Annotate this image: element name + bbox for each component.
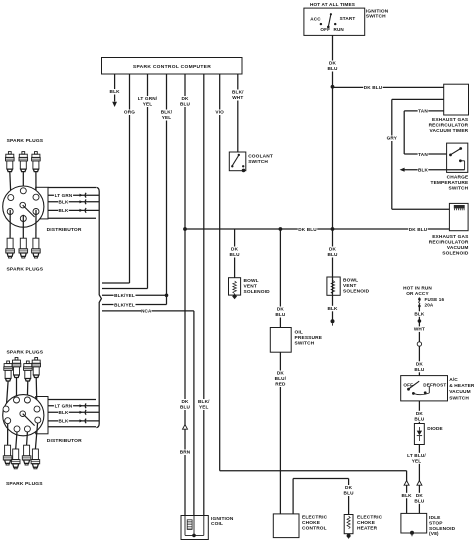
svg-text:SPARK PLUGS: SPARK PLUGS bbox=[7, 138, 44, 144]
svg-text:SWITCH: SWITCH bbox=[449, 395, 469, 401]
svg-text:BLU/: BLU/ bbox=[275, 376, 287, 381]
svg-text:EXHAUST GAS: EXHAUST GAS bbox=[432, 234, 469, 240]
svg-text:BLU: BLU bbox=[180, 102, 191, 107]
svg-text:SOLENOID: SOLENOID bbox=[442, 251, 469, 257]
svg-text:DK BLU: DK BLU bbox=[364, 85, 383, 90]
svg-text:BLK: BLK bbox=[59, 410, 69, 415]
svg-text:BLU: BLU bbox=[414, 416, 425, 421]
svg-text:NCA: NCA bbox=[141, 309, 152, 314]
svg-text:BLK: BLK bbox=[110, 89, 121, 94]
svg-text:DK: DK bbox=[329, 247, 337, 252]
svg-text:DK: DK bbox=[277, 371, 285, 376]
svg-text:RED: RED bbox=[275, 382, 286, 387]
svg-text:BLK: BLK bbox=[418, 168, 429, 173]
svg-text:BLU: BLU bbox=[327, 252, 338, 257]
svg-text:VIO: VIO bbox=[215, 110, 224, 115]
svg-text:BLK/: BLK/ bbox=[161, 110, 173, 115]
svg-text:HOT IN RUN: HOT IN RUN bbox=[403, 286, 432, 291]
svg-text:OIL: OIL bbox=[295, 330, 303, 336]
svg-text:(V8): (V8) bbox=[429, 531, 439, 537]
svg-text:YEL: YEL bbox=[162, 115, 172, 120]
svg-text:DK: DK bbox=[416, 361, 424, 366]
svg-text:SOLENOID: SOLENOID bbox=[429, 526, 456, 532]
svg-text:SWITCH: SWITCH bbox=[366, 14, 386, 20]
svg-text:SOLENOID: SOLENOID bbox=[343, 288, 370, 294]
svg-text:DK BLU: DK BLU bbox=[409, 227, 428, 232]
svg-text:SPARK CONTROL COMPUTER: SPARK CONTROL COMPUTER bbox=[133, 64, 211, 70]
svg-text:YEL: YEL bbox=[199, 405, 209, 410]
svg-text:BLK: BLK bbox=[59, 419, 69, 424]
svg-text:ELECTRIC: ELECTRIC bbox=[357, 515, 383, 521]
svg-text:CHOKE: CHOKE bbox=[357, 520, 376, 526]
svg-text:A/C: A/C bbox=[449, 377, 458, 383]
svg-text:SWITCH: SWITCH bbox=[248, 159, 268, 165]
svg-text:LT GRN: LT GRN bbox=[55, 404, 73, 409]
svg-text:WHT: WHT bbox=[414, 326, 425, 331]
svg-text:DK: DK bbox=[277, 307, 285, 312]
svg-text:VACUUM: VACUUM bbox=[447, 245, 469, 251]
svg-text:SPARK PLUGS: SPARK PLUGS bbox=[7, 349, 44, 355]
svg-text:HEATER: HEATER bbox=[357, 525, 378, 531]
svg-text:DISTRIBUTOR: DISTRIBUTOR bbox=[47, 227, 82, 233]
svg-text:20A: 20A bbox=[425, 303, 434, 308]
svg-text:STOP: STOP bbox=[429, 520, 443, 526]
svg-text:VENT: VENT bbox=[343, 283, 356, 289]
svg-text:BLK: BLK bbox=[414, 311, 425, 316]
svg-text:TAN: TAN bbox=[418, 152, 428, 157]
svg-text:BLK: BLK bbox=[327, 306, 338, 311]
svg-text:FUSE 16: FUSE 16 bbox=[425, 297, 445, 302]
svg-text:BLK: BLK bbox=[402, 493, 413, 498]
svg-text:COIL: COIL bbox=[211, 521, 223, 527]
svg-text:BLU: BLU bbox=[414, 367, 425, 372]
svg-text:TAN: TAN bbox=[418, 109, 428, 114]
svg-text:YEL: YEL bbox=[412, 458, 422, 463]
svg-text:LT GRN: LT GRN bbox=[55, 193, 73, 198]
svg-text:VACUUM: VACUUM bbox=[449, 389, 471, 395]
svg-text:SOLENOID: SOLENOID bbox=[244, 289, 271, 295]
svg-text:DK: DK bbox=[181, 96, 189, 101]
svg-text:TEMPERATURE: TEMPERATURE bbox=[430, 180, 468, 186]
svg-text:BLK: BLK bbox=[59, 200, 69, 205]
svg-text:HOT AT ALL TIMES: HOT AT ALL TIMES bbox=[310, 2, 355, 7]
svg-text:ELECTRIC: ELECTRIC bbox=[302, 515, 328, 521]
svg-text:& HEATER: & HEATER bbox=[449, 383, 474, 389]
svg-text:BLK/YEL: BLK/YEL bbox=[114, 302, 135, 307]
svg-text:BLU: BLU bbox=[275, 312, 286, 317]
svg-text:DEFROST: DEFROST bbox=[423, 382, 446, 387]
svg-text:VENT: VENT bbox=[244, 283, 257, 289]
svg-text:WHT: WHT bbox=[232, 95, 243, 100]
svg-text:LT BLU/: LT BLU/ bbox=[407, 453, 426, 458]
svg-text:VACUUM TIMER: VACUUM TIMER bbox=[430, 128, 469, 134]
svg-text:DISTRIBUTOR: DISTRIBUTOR bbox=[47, 438, 82, 444]
svg-text:IDLE: IDLE bbox=[429, 515, 441, 521]
svg-text:DK: DK bbox=[416, 411, 424, 416]
svg-text:YEL: YEL bbox=[143, 102, 153, 107]
svg-text:GRY: GRY bbox=[387, 136, 398, 141]
svg-text:RUN: RUN bbox=[334, 27, 345, 32]
svg-text:CHARGE: CHARGE bbox=[447, 174, 469, 180]
svg-text:OR ACCY: OR ACCY bbox=[406, 291, 429, 296]
svg-text:PRESSURE: PRESSURE bbox=[295, 335, 323, 341]
svg-text:DK: DK bbox=[181, 399, 189, 404]
svg-text:BLU: BLU bbox=[327, 66, 338, 71]
svg-text:BRN: BRN bbox=[180, 450, 191, 455]
svg-text:IGNITION: IGNITION bbox=[211, 516, 234, 522]
svg-text:BOWL: BOWL bbox=[343, 278, 358, 284]
svg-text:ACC: ACC bbox=[310, 17, 321, 22]
svg-text:CHOKE: CHOKE bbox=[302, 520, 321, 526]
svg-text:DK: DK bbox=[329, 61, 337, 66]
svg-text:SWITCH: SWITCH bbox=[295, 340, 315, 346]
svg-text:BLK/YEL: BLK/YEL bbox=[114, 293, 135, 298]
svg-text:DK: DK bbox=[231, 247, 239, 252]
svg-text:RECIRCULATOR: RECIRCULATOR bbox=[429, 240, 469, 246]
svg-text:SPARK PLUGS: SPARK PLUGS bbox=[7, 267, 44, 273]
svg-text:BLU: BLU bbox=[344, 491, 355, 496]
svg-text:SPARK PLUGS: SPARK PLUGS bbox=[6, 481, 43, 487]
svg-text:IGNITION: IGNITION bbox=[366, 8, 389, 14]
svg-text:BLK/: BLK/ bbox=[232, 90, 244, 95]
svg-text:EXHAUST GAS: EXHAUST GAS bbox=[432, 117, 469, 123]
svg-text:COOLANT: COOLANT bbox=[248, 154, 273, 160]
svg-text:RECIRCULATOR: RECIRCULATOR bbox=[429, 123, 469, 129]
svg-text:CONTROL: CONTROL bbox=[302, 525, 327, 531]
svg-text:DIODE: DIODE bbox=[427, 426, 443, 431]
svg-text:BLK: BLK bbox=[59, 208, 69, 213]
svg-text:DK BLU: DK BLU bbox=[298, 227, 317, 232]
svg-text:DK: DK bbox=[345, 485, 353, 490]
svg-text:SWITCH: SWITCH bbox=[448, 185, 468, 191]
svg-text:BOWL: BOWL bbox=[244, 278, 259, 284]
svg-text:DK: DK bbox=[416, 493, 424, 498]
svg-text:BLU: BLU bbox=[414, 498, 425, 503]
svg-text:BLU: BLU bbox=[180, 405, 191, 410]
svg-text:BLU: BLU bbox=[230, 252, 241, 257]
svg-text:START: START bbox=[340, 16, 356, 21]
svg-text:LT GRN/: LT GRN/ bbox=[138, 96, 158, 101]
svg-text:ORG: ORG bbox=[124, 110, 135, 115]
svg-text:BLK/: BLK/ bbox=[198, 399, 210, 404]
